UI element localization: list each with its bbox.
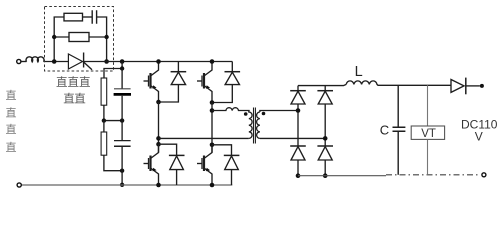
wire output bottom dash-dot <box>386 174 480 176</box>
inductor L filter <box>346 81 451 85</box>
diode D8 rectifier bottom-right <box>317 146 333 176</box>
svg-text:L: L <box>355 64 363 80</box>
IGBT V4 bottom-right <box>197 145 212 185</box>
diode D3 bottom-left <box>159 144 185 185</box>
node dot <box>120 59 125 64</box>
node dot <box>120 66 124 70</box>
diode D4 bottom-right <box>212 145 239 185</box>
IGBT V1 top-left <box>144 62 159 103</box>
svg-text:直直: 直直 <box>63 91 85 105</box>
DC bus top rail wire <box>84 61 233 63</box>
thyristor crowbar <box>68 54 82 69</box>
node dot <box>102 118 106 122</box>
output terminal minus <box>482 173 486 177</box>
svg-text:直直直: 直直直 <box>56 75 91 89</box>
node dot <box>296 108 301 113</box>
node dot <box>120 183 124 187</box>
wire rectifier bottom rail <box>298 175 386 177</box>
inductor resonant small <box>212 108 250 111</box>
diode D5 rectifier top-left <box>290 86 306 146</box>
node dot <box>210 143 215 148</box>
wire <box>44 61 69 63</box>
diode D2 top-right <box>212 62 240 103</box>
svg-text:直: 直 <box>6 140 17 154</box>
svg-text:直: 直 <box>6 88 17 102</box>
primary bottom rail wire <box>22 184 233 186</box>
wire right inner vertical <box>97 17 107 62</box>
output terminal plus <box>480 84 484 88</box>
dashed snubber box <box>45 7 114 72</box>
resistor R top branch <box>64 13 83 21</box>
wire phase A output <box>159 137 249 139</box>
node dot <box>156 59 161 64</box>
inductor input coil <box>26 57 44 62</box>
wire bus cap branch feed <box>104 62 122 79</box>
resistor R1 bus balance <box>101 78 107 105</box>
IGBT V3 bottom-left <box>144 144 159 185</box>
node dot <box>296 173 301 178</box>
node dot <box>104 35 108 39</box>
svg-text:C: C <box>380 123 389 138</box>
block VT <box>411 126 444 139</box>
resistor R2 bus balance <box>103 121 105 132</box>
wire <box>104 105 122 120</box>
wire <box>83 16 93 18</box>
node dot <box>210 108 215 113</box>
node dot <box>210 100 215 105</box>
node dot <box>156 136 161 141</box>
node dot <box>210 183 215 188</box>
node dot <box>104 59 109 64</box>
polarity dot primary <box>244 112 248 116</box>
transformer T primary winding <box>249 111 252 139</box>
svg-text:VT: VT <box>421 128 436 140</box>
wire secondary bottom <box>260 137 325 139</box>
transformer T secondary winding <box>257 112 260 138</box>
node dot <box>156 183 161 188</box>
node dot <box>120 118 124 122</box>
capacitor C top branch <box>92 10 96 23</box>
node dot <box>52 35 56 39</box>
wire left inner vertical <box>54 17 64 62</box>
svg-text:直: 直 <box>6 106 17 120</box>
node dot <box>323 136 328 141</box>
capacitor C output filter <box>397 85 399 127</box>
polarity dot secondary <box>262 112 266 116</box>
wire rectifier top rail <box>298 84 346 85</box>
watermark column <box>6 88 17 154</box>
transformer core <box>254 108 256 144</box>
diode VD output <box>451 78 480 95</box>
svg-text:直: 直 <box>6 122 17 136</box>
node dot <box>156 142 161 147</box>
diode D7 rectifier bottom-left <box>290 146 306 176</box>
diode D6 rectifier top-right <box>317 86 333 146</box>
wire <box>104 155 122 171</box>
input terminal bottom-left <box>17 183 21 187</box>
wire VT branch <box>427 85 429 126</box>
wire left leg <box>158 102 160 153</box>
node dot <box>323 173 328 178</box>
node dot <box>210 59 215 64</box>
resistor R middle branch <box>69 33 89 42</box>
wire <box>427 140 429 175</box>
wire <box>21 61 26 63</box>
svg-text:V: V <box>475 130 483 144</box>
input terminal top-left <box>17 59 21 63</box>
capacitor C2 bus <box>121 121 123 141</box>
diode D1 top-left <box>159 62 187 103</box>
IGBT V2 top-right <box>197 62 212 103</box>
node dot <box>156 100 161 105</box>
node dot <box>120 169 124 173</box>
node dot <box>52 59 57 64</box>
wire middle branch <box>54 36 106 38</box>
capacitor C1 bus <box>121 69 123 89</box>
watermark cluster <box>56 75 91 106</box>
wire secondary top <box>260 111 298 113</box>
wire right leg <box>211 103 213 153</box>
